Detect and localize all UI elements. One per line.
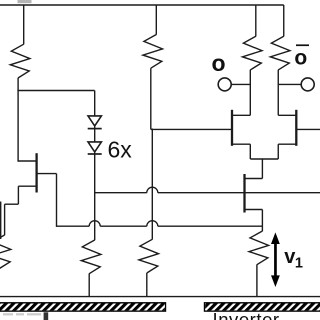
wire long bias: Q1 gate to Q4 source, with two hops: [57, 225, 90, 227]
transistor Q1 channel bar: [35, 153, 37, 192]
wire down to R3: [4, 204, 6, 235]
wire Q2 source lead: [232, 143, 250, 145]
svg-text:o: o: [294, 47, 307, 70]
wire Q4 source lead: [245, 209, 263, 211]
transistor Q3 channel bar (right of cross pair): [295, 110, 297, 146]
wire R3 bottom to ground (at edge): [0, 269, 1, 297]
caption fragment cut at top edge: [18, 0, 32, 3]
diode D1: [88, 116, 101, 126]
wire output o tap: [231, 83, 250, 85]
wire R8 top lead (rail end corner): [283, 5, 285, 36]
wire Q1 gate drop: [56, 174, 58, 227]
resistor R8 (load right): [270, 36, 290, 70]
wire tail: common source down to Q4 drain: [261, 159, 263, 179]
wire R7 top lead: [255, 5, 257, 36]
ground bar left (hatched): [0, 303, 166, 311]
wire Q3 source lead: [278, 143, 296, 145]
resistor R1 (top left): [10, 44, 30, 78]
transistor Q4 channel bar (tail device): [243, 174, 245, 213]
wire common source rail: [250, 158, 278, 160]
wire R8 bottom to Q3 drain: [277, 70, 279, 116]
caption fragment under left bar: [3, 313, 41, 315]
wire diode chain top lead: [94, 91, 96, 117]
wire Q3 drain lead: [278, 114, 296, 116]
wire Q1 source step left: [5, 203, 19, 205]
terminal circle output o-bar: [301, 78, 314, 91]
wire Q4 drain lead: [245, 178, 263, 180]
wire R1 top lead: [23, 5, 25, 44]
terminal circle output o: [218, 78, 231, 91]
wire hop over x=94.7 at y=226.2: [89, 221, 100, 226]
wire R5 bottom to ground rail: [146, 273, 148, 297]
wire middle branch top lead: [155, 5, 157, 35]
resistor R7 (load left): [242, 36, 262, 70]
wire R4 bottom to ground rail: [88, 274, 90, 297]
resistor R3 (left edge, cut off): [0, 235, 11, 269]
wire R1 bottom to node A: [17, 78, 19, 162]
wire R2 bottom down middle branch: [150, 68, 152, 129]
ground bar right (hatched): [205, 303, 320, 311]
arrow v1 (double headed): [271, 232, 280, 287]
wire D1 to D2: [94, 126, 96, 142]
transistor Q2 channel bar (left of cross pair): [231, 110, 233, 146]
resistor R4 (below diodes): [81, 240, 101, 274]
svg-text:Inverter: Inverter: [213, 309, 280, 320]
svg-text:6x: 6x: [108, 137, 133, 163]
wire node A to diode chain top: [17, 90, 94, 92]
wire Q2 drain lead: [232, 114, 250, 116]
resistor R5 (bottom middle): [139, 239, 159, 273]
diode D2: [88, 142, 101, 152]
wire Q3 source drop: [277, 144, 279, 159]
diode D1 cathode bar: [88, 128, 102, 130]
wire VDD top rail: [0, 4, 284, 6]
wire Q1 drain lead: [18, 160, 36, 162]
wire Q3 gate lead to right edge: [296, 128, 320, 130]
resistor R6 (v1 tail resistor): [249, 231, 269, 265]
wire Q1 source lead: [18, 185, 36, 187]
svg-text:1: 1: [295, 255, 303, 271]
wire Q1 source drop: [17, 186, 19, 204]
wire output o-bar tap: [278, 83, 301, 85]
overline of o-bar: [296, 44, 309, 46]
wire Q2 source drop: [249, 144, 251, 159]
svg-text:o: o: [212, 50, 226, 76]
wire Q2 gate lead from middle branch: [151, 128, 232, 130]
wire D2 to node B and down to R4: [94, 152, 96, 240]
diode D2 cathode bar: [88, 153, 102, 155]
wire gate bias: node B to right edge with hop over middle branch: [95, 192, 147, 194]
wire R6 bottom to ground rail: [256, 265, 258, 297]
wire hop over x=152.3 at y=192.7: [147, 187, 158, 192]
wire Q4 source drop to node V1: [261, 210, 263, 232]
wire R7 bottom to Q2 drain: [249, 70, 251, 116]
wire Q1 gate lead: [37, 173, 57, 175]
wire cut-off at left edge: [0, 202, 2, 240]
ground rail: [0, 296, 320, 298]
resistor R2 (top middle): [143, 35, 163, 69]
wire hop over x=152.3 at y=226.2: [147, 221, 158, 226]
